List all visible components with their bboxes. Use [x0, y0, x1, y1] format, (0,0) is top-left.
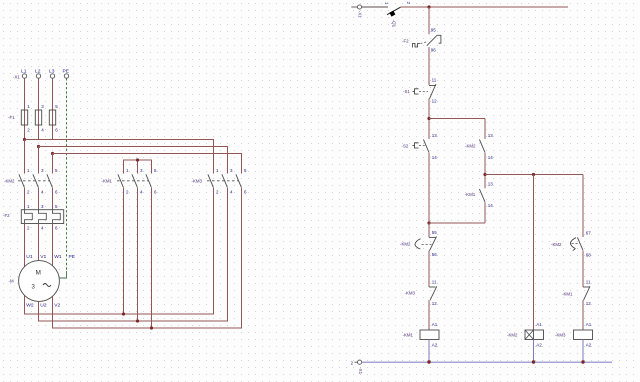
svg-text:14: 14 — [488, 203, 494, 208]
wire L3 to KM2 contact — [52, 154, 54, 174]
KM1 aux NC 11-12 — [562, 279, 591, 306]
wire F2 to S1 — [428, 47, 430, 85]
wire L2 to KM2 contact — [38, 147, 40, 174]
svg-text:-KM1: -KM1 — [403, 333, 414, 338]
junction KM2 coil on rail — [532, 360, 535, 363]
wire F2 to motor W1 — [52, 224, 54, 266]
svg-text:W2: W2 — [26, 303, 34, 309]
wire feeder L2 to KM3 pole 3 — [39, 147, 228, 174]
svg-text:13: 13 — [488, 133, 494, 138]
svg-text:A2: A2 — [536, 343, 542, 348]
svg-text:-F1: -F1 — [8, 115, 15, 120]
wire node to F2 contact — [428, 7, 430, 34]
thermal overload relay F2 — [3, 204, 64, 231]
svg-text:-F2: -F2 — [402, 39, 409, 44]
motor bottom terminal labels W2 U2 V2 — [26, 303, 60, 309]
wire L2 terminal to fuse — [38, 78, 40, 110]
wire F2 to motor U1 — [24, 224, 26, 267]
junction KM1 on rail — [427, 360, 430, 363]
KM2 aux NO 13-14 (seal-in) — [465, 119, 493, 161]
terminal X top (control supply) — [351, 5, 362, 18]
svg-text:M: M — [36, 270, 41, 277]
junction branch node — [427, 117, 430, 120]
svg-text:-KM2: -KM2 — [4, 179, 15, 184]
wire lower node to KM2 timed contact — [428, 223, 430, 237]
junction KM2 coil tap — [532, 173, 535, 176]
F2 NC contact 95-96 — [402, 27, 441, 52]
terminal L2 — [35, 69, 41, 79]
wire lower node horizontal — [429, 222, 485, 224]
wire terminal to switch Q1 — [362, 6, 388, 8]
svg-text:12: 12 — [432, 301, 438, 306]
KM1 aux NO 13-14 — [465, 182, 494, 209]
motor M terminal labels U1 V1 W1 PE — [26, 254, 75, 260]
wire KM2 aux to mid node — [484, 153, 486, 189]
coil KM2 (timer) A1-A2 — [507, 322, 544, 348]
fuse F1 pole 1 pins 1-2 — [21, 104, 30, 140]
wire switch to top node — [401, 6, 430, 8]
contactor KM2 main poles — [4, 168, 58, 195]
junction lower node — [427, 221, 430, 224]
KM3 aux NC 11-12 — [405, 279, 438, 306]
junction KM3 on rail — [581, 360, 584, 363]
contactor KM1 star bridge — [124, 158, 152, 173]
svg-text:-KM1: -KM1 — [102, 179, 113, 184]
svg-text:96: 96 — [431, 48, 437, 53]
motor M 3~ — [9, 261, 60, 302]
wire PE dashed green — [60, 78, 67, 278]
svg-text:56: 56 — [432, 252, 438, 257]
contactor KM3 delta poles — [192, 168, 248, 195]
wire L1 to KM2 contact — [24, 140, 26, 174]
wire top rail — [429, 6, 568, 8]
svg-text:11: 11 — [586, 279, 591, 284]
wire branch to KM2 aux — [429, 118, 485, 120]
wire feeder L1 to KM3 pole 1 — [25, 140, 214, 174]
wire KM2 to F2 pole2 — [38, 188, 40, 210]
terminal L1 — [21, 69, 27, 79]
svg-text:95: 95 — [431, 27, 437, 32]
wire motor V2 to delta bus 3 — [53, 188, 242, 328]
fuse F1 pole 3 pins 5-6 — [49, 104, 58, 140]
svg-text:-S1: -S1 — [403, 89, 410, 94]
wire KM1 pole3 down — [151, 188, 153, 328]
svg-text:11: 11 — [432, 78, 437, 83]
junction top node — [427, 5, 430, 8]
svg-text:-F2: -F2 — [3, 213, 10, 218]
wire KM1 pole1 down — [123, 188, 125, 314]
svg-text:A1: A1 — [586, 322, 592, 327]
junction KM1 coil on rail — [427, 360, 430, 363]
svg-text:14: 14 — [432, 155, 438, 160]
svg-text:A1: A1 — [432, 322, 438, 327]
junction KM2 on rail — [532, 360, 535, 363]
junction KM1 pole1 / bus1 — [122, 312, 125, 315]
svg-text:-X1: -X1 — [358, 367, 363, 374]
wire L1 terminal to fuse — [24, 78, 26, 110]
svg-text:-KM3: -KM3 — [192, 179, 203, 184]
wire motor U2 to delta bus 2 — [39, 188, 228, 321]
S2 start button NO 13-14 — [402, 133, 438, 160]
node L3 tap junction — [51, 152, 54, 155]
svg-text:-KM2: -KM2 — [507, 333, 518, 338]
wire F2 to motor V1 — [38, 224, 40, 261]
svg-text:-KM1: -KM1 — [562, 292, 573, 297]
wire S2 down to lower node — [428, 153, 430, 223]
svg-text:-KM2: -KM2 — [465, 144, 476, 149]
junction KM3 coil on rail — [581, 360, 584, 363]
wire feeder L3 to KM3 pole 5 — [53, 154, 242, 174]
svg-text:PE: PE — [69, 254, 76, 260]
svg-text:-Q1: -Q1 — [392, 20, 397, 28]
svg-text:13: 13 — [432, 133, 438, 138]
contactor KM1 star poles — [102, 168, 158, 195]
wire KM1 coil to neutral rail — [428, 340, 430, 363]
junction mid node — [483, 173, 486, 176]
svg-text:A1: A1 — [536, 322, 542, 327]
svg-text:W1: W1 — [54, 254, 62, 260]
S1 stop button NC 11-12 — [403, 78, 437, 104]
wire KM2 to F2 pole3 — [52, 188, 54, 210]
svg-text:14: 14 — [488, 155, 494, 160]
junction KM1 pole3 / bus3 — [150, 326, 153, 329]
svg-text:-KM2: -KM2 — [400, 242, 411, 247]
svg-text:-KM2: -KM2 — [551, 242, 562, 247]
svg-text:11: 11 — [432, 279, 437, 284]
junction KM1 pole2 / bus2 — [136, 319, 139, 322]
svg-text:12: 12 — [586, 301, 592, 306]
svg-text:13: 13 — [488, 182, 494, 187]
wire KM1 aux down to lower node — [484, 202, 486, 223]
wire KM2 timed to KM1 aux NC — [582, 251, 584, 287]
node L2 tap junction — [37, 145, 40, 148]
svg-text:-X1: -X1 — [357, 11, 362, 18]
svg-text:55: 55 — [432, 230, 438, 235]
wire KM3 coil to neutral rail — [582, 340, 584, 363]
wire KM2 to F2 pole1 — [24, 188, 26, 210]
terminal PE — [63, 69, 70, 79]
svg-text:-KM3: -KM3 — [555, 333, 566, 338]
fuse F1 pole 2 pins 3-4 — [35, 104, 44, 140]
svg-text:U2: U2 — [40, 303, 47, 309]
svg-text:A2: A2 — [432, 343, 438, 348]
wire KM2 timed to KM3 aux — [428, 251, 430, 287]
wire KM1 pole2 down — [137, 188, 139, 321]
KM2 timed NC contact 55-56 — [400, 230, 437, 257]
terminal L3 — [49, 69, 55, 79]
svg-text:-KM3: -KM3 — [405, 291, 416, 296]
wire motor W2 to delta bus 1 — [25, 188, 214, 314]
wire S1 to branch node — [428, 99, 430, 140]
node L1 tap junction — [23, 138, 26, 141]
svg-text:V1: V1 — [40, 254, 46, 260]
wire L3 terminal to fuse — [52, 78, 54, 110]
coil KM3 A1-A2 — [555, 322, 593, 348]
coil KM1 A1-A2 — [403, 322, 440, 348]
svg-text:67: 67 — [586, 231, 592, 236]
svg-text:-S2: -S2 — [402, 144, 409, 149]
svg-text:U1: U1 — [26, 254, 33, 260]
svg-text:-M: -M — [9, 279, 14, 284]
wire KM2 coil branch vertical — [533, 175, 535, 331]
svg-text:68: 68 — [586, 253, 592, 258]
svg-text:A2: A2 — [586, 343, 592, 348]
svg-text:12: 12 — [432, 99, 438, 104]
KM2 timed NO contact 67-68 — [551, 231, 591, 258]
svg-text:V2: V2 — [54, 303, 60, 309]
switch Q1 pins 1-2 — [384, 2, 411, 28]
wire KM3 branch vertical top — [582, 175, 584, 238]
wire neutral rail — [362, 361, 612, 363]
wire KM2 coil to neutral rail — [533, 340, 535, 363]
wire KM3 aux to KM1 coil — [428, 300, 430, 330]
svg-text:-KM1: -KM1 — [465, 192, 476, 197]
wire mid node to KM2 coil branch — [485, 174, 583, 176]
svg-text:-X1: -X1 — [13, 75, 20, 80]
wire KM1 aux to KM3 coil — [582, 300, 584, 330]
terminal X bottom (neutral) — [351, 360, 363, 374]
